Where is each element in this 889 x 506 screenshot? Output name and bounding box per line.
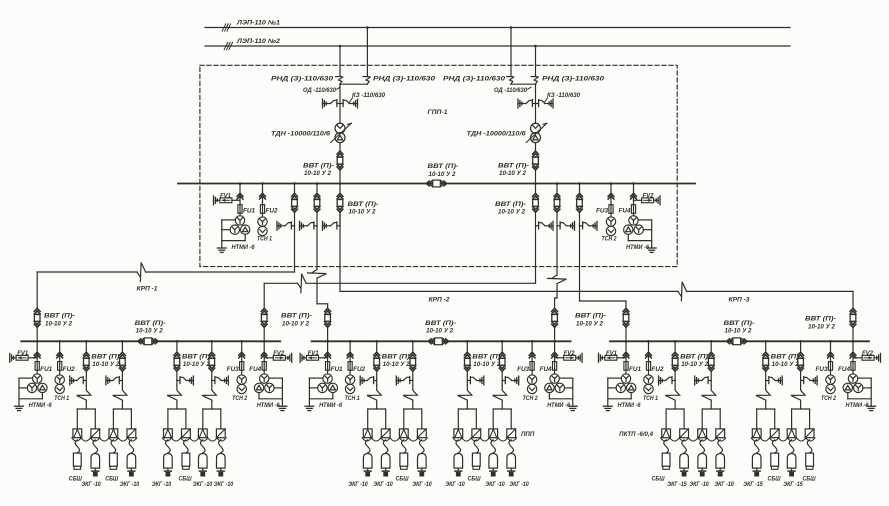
KRP@37 switchbox feeder 3 left — [164, 429, 173, 438]
svg-text:ВВТ (П)-: ВВТ (П)- — [805, 316, 836, 323]
breaker GPP feeder 6 — [577, 193, 583, 196]
KRP@626 node feeder 3 — [764, 340, 767, 343]
KRP@626 bus-tie breaker — [727, 339, 730, 344]
wire R2 jog — [555, 297, 557, 299]
KRP@328 wire feeder 4 d — [501, 400, 503, 409]
breaker GPP feeder 3 — [337, 193, 343, 196]
svg-text:ВВТ (П)-: ВВТ (П)- — [498, 162, 529, 169]
KRP@328 trailing cable f4l — [491, 440, 496, 453]
wire GPP feeder 1 lower — [294, 212, 296, 226]
KRP@626 wire FU2-TCN — [648, 370, 650, 374]
KRP@626 trailing cable f1l — [664, 440, 669, 453]
KRP@328 earthing knife feeder 2 — [395, 376, 397, 385]
KRP@626 wire FU1-VT — [625, 370, 627, 374]
KRP@37 earthing knife feeder 3 — [192, 376, 194, 385]
svg-text:КРП -1: КРП -1 — [137, 286, 158, 293]
KRP@626 load EKG f2l — [698, 454, 707, 469]
earthing knife GPP feeder 5 — [574, 221, 576, 230]
disconnector RND1 bay1 — [336, 76, 342, 78]
KRP@626 wire FU4-VT — [852, 370, 854, 374]
KRP@328 VT NTMI-6 left — [323, 374, 332, 383]
KRP@328 switchbox feeder 4 left — [489, 429, 498, 438]
disconnector RND2 bay1 — [363, 76, 369, 78]
wire KRP-3 left input drop — [625, 301, 627, 308]
svg-text:ВВТ (П): ВВТ (П) — [182, 354, 210, 361]
KRP@626 trailing cable f4l — [789, 440, 794, 453]
KRP@37 earthing knife feeder 1 — [69, 376, 71, 385]
wire feeder L3 drop — [339, 212, 341, 291]
KRP@626 wire feeder 4 b — [800, 371, 802, 380]
svg-text:ЭКГ -15: ЭКГ -15 — [667, 481, 687, 488]
KRP@37 node feeder 4 — [211, 340, 214, 343]
svg-text:ВВТ (П)-: ВВТ (П)- — [281, 313, 312, 320]
KRP@626 load SBSh f1l — [662, 453, 670, 466]
KRP@626 tap arrow FU3 — [828, 352, 834, 355]
wire feeder R1 to KRP-1 — [306, 282, 535, 284]
KRP@626 switchbox feeder 4 left — [787, 429, 796, 438]
KRP@328 wire feeder 1 d — [376, 400, 378, 409]
KRP@328 switchbox feeder 1 left — [363, 429, 372, 438]
svg-text:РНД (З)-110/630: РНД (З)-110/630 — [373, 76, 436, 83]
KRP@37 fuse FU2 — [58, 362, 62, 371]
svg-text:10-10 У 2: 10-10 У 2 — [576, 320, 604, 327]
KRP@328 load SBSh f2l — [400, 453, 408, 466]
KRP@37 fuse FU1 — [35, 362, 39, 371]
node GPP feeder 4 — [534, 182, 537, 185]
wire feeder L1 drop — [294, 226, 296, 272]
KRP@626 breaker feeder 2 — [708, 352, 714, 355]
KRP@37 breaker feeder 2 — [120, 352, 126, 355]
KRP@626 wire feeder 3 a — [765, 341, 767, 352]
KRP@626 input breaker right — [850, 308, 856, 311]
KRP@626 arrester FV1 — [598, 353, 600, 362]
wire joint bay1 — [340, 83, 368, 85]
KRP@626 trailing cable f3r — [772, 440, 777, 453]
wire GPP feeder 1 upper — [294, 184, 296, 194]
svg-text:ЭКГ -10: ЭКГ -10 — [485, 481, 505, 488]
busbar GPP 6-10kV — [178, 183, 695, 185]
svg-text:НТМИ -6: НТМИ -6 — [547, 403, 571, 409]
svg-text:СБШ: СБШ — [803, 476, 817, 483]
KRP@626 earthing knife feeder 2 — [694, 376, 696, 385]
GPP right tap arrow VT — [631, 193, 637, 196]
GPP right tap arrow TCN — [608, 193, 614, 196]
wire drop bay1 left — [339, 46, 341, 76]
KRP@626 load EKG f1r — [680, 454, 689, 469]
wire GPP feeder 4 upper — [535, 184, 537, 194]
KRP@626 overhead-line break feeder 1 — [665, 385, 679, 400]
KRP@37 earthing knife feeder 2 — [105, 376, 107, 385]
KRP@626 load SBSh f4r — [806, 453, 814, 466]
KRP@37 trailing cable f1r — [93, 440, 98, 453]
KRP@37 switchbox feeder 4 right — [216, 429, 225, 438]
KRP@328 breaker feeder 2 — [410, 352, 416, 355]
KRP@626 node TCN tap FU2 — [647, 340, 650, 343]
KRP@37 trailing cable f1l — [75, 440, 80, 453]
KRP@37 switchbox feeder 1 left — [73, 429, 82, 438]
wire bay2 down to OD/KZ — [535, 84, 537, 103]
KRP@626 wire feeder 4 c — [800, 381, 802, 386]
svg-text:ЭКГ -10: ЭКГ -10 — [348, 481, 368, 488]
KRP@37 wire feeder 4 b — [211, 371, 213, 380]
svg-text:10-10 У 2: 10-10 У 2 — [136, 328, 164, 335]
KRP@37 load EKG f4l — [199, 454, 208, 469]
KRP@37 trailing cable f4r — [218, 440, 223, 453]
svg-text:10-10 У 2: 10-10 У 2 — [45, 320, 73, 327]
disconnector OD bay1 — [322, 99, 324, 108]
KRP@626 fuse FU3 — [828, 362, 832, 371]
KRP@626 earthing knife feeder 4 — [816, 376, 818, 385]
svg-text:РНД (З)-110/630: РНД (З)-110/630 — [271, 76, 334, 83]
svg-text:FV1: FV1 — [308, 351, 320, 357]
KRP@626 load EKG f4l — [787, 454, 796, 469]
KRP@37 arrester FV2 — [291, 353, 293, 362]
wire L2 jog — [317, 303, 328, 305]
KRP@328 flex boundary left pair — [362, 438, 427, 441]
KRP@37 wire feeder 1 c — [85, 381, 87, 386]
KRP@626 trailing cable f4r — [807, 440, 812, 453]
svg-text:FU2: FU2 — [652, 367, 665, 373]
svg-text:10-10 У 2: 10-10 У 2 — [499, 170, 527, 177]
hatch marks line 1 — [222, 24, 226, 31]
KRP@37 busbar — [21, 340, 280, 342]
KRP@328 node feeder 3 — [466, 340, 469, 343]
svg-text:РНД (З)-110/630: РНД (З)-110/630 — [443, 76, 506, 83]
svg-text:СБШ: СБШ — [396, 476, 410, 483]
wire drop bay1 right — [366, 28, 368, 76]
node line2 tap bay2 — [534, 45, 537, 48]
KRP@37 load EKG f1r — [91, 454, 100, 469]
node GPP feeder 2 — [316, 182, 319, 185]
svg-text:10-10 У 2: 10-10 У 2 — [429, 171, 457, 178]
KRP@37 node feeder 1 — [85, 340, 88, 343]
wire GPP feeder 2 lower — [316, 212, 318, 226]
earthing knife GPP feeder 2 — [299, 221, 301, 230]
wire GPP feeder 6 lower — [579, 212, 581, 226]
svg-text:НТМИ -6: НТМИ -6 — [846, 403, 870, 409]
KRP@328 node input right — [553, 340, 556, 343]
earthing knife GPP feeder 4 — [552, 221, 554, 230]
svg-text:ТДН -10000/110/6: ТДН -10000/110/6 — [467, 131, 527, 137]
KRP@37 wire FU2-TCN — [59, 370, 61, 374]
KRP@626 load SBSh f3r — [771, 453, 779, 466]
svg-text:FU2: FU2 — [266, 208, 279, 214]
svg-text:ВВТ (П)-: ВВТ (П)- — [575, 313, 606, 320]
svg-text:FU4: FU4 — [838, 367, 851, 373]
KRP@626 splitter feeder 1 — [666, 408, 684, 410]
KRP@328 tap arrow VT FU1 — [325, 352, 331, 355]
KRP@328 load EKG f4l — [489, 454, 498, 469]
KRP@328 wire FU3-TCN — [531, 370, 533, 374]
svg-text:РНД (З)-110/630: РНД (З)-110/630 — [542, 76, 605, 83]
KRP@328 busbar — [312, 340, 571, 342]
svg-text:FV2: FV2 — [273, 351, 285, 357]
svg-text:ВВТ (П)-: ВВТ (П)- — [135, 320, 166, 327]
KRP@328 wire FU4-VT — [554, 370, 556, 374]
KRP@328 trailing cable f2l — [401, 440, 406, 453]
line break on L3 — [678, 291, 681, 296]
wire GPP feeder 3 lower — [339, 212, 341, 226]
KRP@37 node TCN tap FU2 — [58, 340, 61, 343]
KRP@37 switchbox feeder 1 right — [91, 429, 100, 438]
svg-text:ЭКГ -10: ЭКГ -10 — [445, 481, 465, 488]
svg-text:ВВТ (П): ВВТ (П) — [771, 354, 799, 361]
svg-text:ВВТ (П)-: ВВТ (П)- — [44, 313, 75, 320]
KRP@37 trailing cable f3r — [184, 440, 189, 453]
KRP@328 transformer ТСН 2 — [527, 375, 536, 384]
svg-text:КРП -3: КРП -3 — [729, 297, 750, 304]
svg-text:ЛЭП-110 №1: ЛЭП-110 №1 — [236, 20, 281, 27]
breaker GPP feeder 2 — [314, 193, 320, 196]
short-circuiter KZ bay2 — [552, 99, 554, 108]
svg-text:FV2: FV2 — [862, 351, 874, 357]
earthing knife GPP feeder 3 — [322, 221, 324, 230]
wire drop bay2 left — [510, 28, 512, 76]
KRP@328 trailing cable f1l — [365, 440, 370, 453]
KRP@328 wire feeder 2 b — [412, 371, 414, 380]
KRP@37 splitter feeder 1 — [77, 408, 95, 410]
node GPP feeder 5 — [556, 182, 559, 185]
wire T1 to breaker — [339, 143, 341, 151]
KRP@37 switchbox feeder 2 right — [127, 429, 136, 438]
KRP@37 wire feeder 2 d — [121, 400, 123, 409]
KRP@37 wire FU4-VT — [263, 370, 265, 374]
KRP@626 wire feeder 2 a — [710, 341, 712, 352]
KRP@626 overhead-line break feeder 3 — [756, 385, 770, 400]
svg-text:FU3: FU3 — [227, 367, 240, 373]
KRP@37 VT NTMI-6 left — [33, 374, 42, 383]
KRP@626 wire feeder 4 a — [800, 341, 802, 352]
KRP@328 breaker feeder 3 — [464, 352, 470, 355]
svg-text:ЭКГ -10: ЭКГ -10 — [120, 481, 140, 488]
KRP@626 transformer ТСН 2 — [826, 375, 835, 384]
svg-text:10-10 У 2: 10-10 У 2 — [383, 361, 411, 368]
KRP@328 wire FU2-TCN — [349, 370, 351, 374]
KRP@626 wire feeder 4 d — [800, 400, 802, 409]
svg-text:НТМИ -6: НТМИ -6 — [618, 403, 642, 409]
KRP@626 node input left — [625, 340, 628, 343]
KRP@37 tap arrow VT FU4 — [261, 352, 267, 355]
KRP@626 fuse FU1 — [624, 362, 628, 371]
KRP@328 wire VT tap FU1 — [327, 341, 329, 361]
KRP@328 wire feeder 3 d — [466, 400, 468, 409]
KRP@37 breaker feeder 3 — [174, 352, 180, 355]
svg-text:ПКТП -6/0,4: ПКТП -6/0,4 — [619, 431, 653, 438]
KRP@328 overhead-line break feeder 3 — [458, 385, 472, 400]
KRP@328 load EKG f1r — [381, 454, 390, 469]
KRP@37 transformer ТСН 1 — [55, 375, 64, 384]
KRP@626 splitter feeder 2 — [702, 408, 720, 410]
KRP@37 node input right — [263, 340, 266, 343]
svg-text:ВВТ (П)-: ВВТ (П)- — [495, 201, 526, 208]
KRP@328 switchbox feeder 1 right — [381, 429, 390, 438]
bus-tie breaker GPP — [426, 181, 429, 186]
GPP right arrester FV — [659, 196, 661, 205]
GPP right node VT tap — [632, 182, 635, 185]
KRP@328 earthing knife feeder 4 — [518, 376, 520, 385]
KRP@328 trailing cable f2r — [419, 440, 424, 453]
breaker GPP feeder 4 — [533, 193, 539, 196]
earthing knife GPP feeder 6 — [596, 221, 598, 230]
KRP@328 wire feeder 4 a — [501, 341, 503, 352]
wire bay1 down to OD/KZ — [339, 84, 341, 103]
KRP@37 wire VT tap FU1 — [36, 341, 38, 361]
GPP right fuse FU-tcn — [609, 205, 613, 214]
svg-text:ТСН 2: ТСН 2 — [232, 396, 248, 402]
KRP@626 tap arrow FU2 — [646, 352, 652, 355]
wire GPP feeder 6 upper — [579, 184, 581, 194]
KRP@37 overhead-line break feeder 1 — [77, 385, 91, 400]
svg-text:ТСН 1: ТСН 1 — [257, 236, 273, 242]
KRP@328 wire FU1-VT — [327, 370, 329, 374]
KRP@37 wire feeder 1 b — [85, 371, 87, 380]
svg-text:НТМИ -6: НТМИ -6 — [626, 245, 650, 251]
KRP@626 load EKG f3l — [752, 454, 761, 469]
KRP@626 input breaker left — [623, 308, 629, 311]
svg-text:ТСН 2: ТСН 2 — [602, 236, 618, 242]
KRP@328 fuse FU3 — [530, 362, 534, 371]
KRP@626 breaker feeder 3 — [763, 352, 769, 355]
GPP right VT NTMI-6 — [629, 216, 638, 225]
KRP@626 earthing knife feeder 3 — [781, 376, 783, 385]
GPP right wire fuse-VT — [633, 213, 635, 215]
KRP@37 wire feeder 4 d — [211, 400, 213, 409]
KRP@37 wire feeder 4 c — [211, 381, 213, 386]
KRP@328 breaker feeder 1 — [374, 352, 380, 355]
svg-text:СБШ: СБШ — [652, 476, 666, 483]
KRP@626 tap arrow VT FU4 — [850, 352, 856, 355]
KRP@37 bus-tie breaker — [138, 339, 141, 344]
svg-text:FV1: FV1 — [606, 351, 618, 357]
svg-text:10-10 У 2: 10-10 У 2 — [772, 361, 800, 368]
wire feeder L3 to KRP-3 — [340, 290, 678, 292]
svg-text:НТМИ -6: НТМИ -6 — [29, 403, 53, 409]
KRP@37 trailing cable f4l — [200, 440, 205, 453]
svg-text:10-10 У 2: 10-10 У 2 — [725, 328, 753, 335]
svg-text:10-10 У 2: 10-10 У 2 — [426, 328, 454, 335]
GPP left tap arrow VT — [237, 193, 243, 196]
KRP@37 splitter feeder 3 — [168, 408, 186, 410]
line break on L2 — [312, 270, 317, 273]
KRP@328 wire feeder 3 a — [466, 341, 468, 352]
KRP@37 switchbox feeder 4 left — [198, 429, 207, 438]
KRP@626 flex boundary right pair — [751, 438, 815, 441]
KRP@37 load EKG f4r — [217, 454, 226, 469]
svg-text:10-10 У 2: 10-10 У 2 — [282, 320, 310, 327]
KRP@37 wire feeder 4 a — [211, 341, 213, 352]
wire feeder R1 drop — [535, 226, 537, 283]
svg-text:10-10 У 2: 10-10 У 2 — [349, 209, 377, 216]
KRP@626 trailing cable f1r — [682, 440, 687, 453]
GPP left tap arrow TCN — [260, 193, 266, 196]
KRP@328 tap arrow VT FU4 — [552, 352, 558, 355]
KRP@37 fuse FU4 — [262, 362, 266, 371]
KRP@626 node feeder 1 — [674, 340, 677, 343]
KRP@626 switchbox feeder 2 right — [716, 429, 725, 438]
GPP right node TCN tap — [610, 182, 613, 185]
KRP@328 earthing knife feeder 1 — [359, 376, 361, 385]
KRP@328 node input left — [326, 340, 329, 343]
KRP@328 load SBSh f3r — [472, 453, 480, 466]
wire feeder L1 to KRP-1 — [146, 271, 295, 273]
svg-text:НТМИ -6: НТМИ -6 — [257, 403, 281, 409]
KRP@328 arrester FV1 — [299, 353, 301, 362]
KRP@37 tap arrow VT FU1 — [34, 352, 40, 355]
dashed enclosure GPP-1 — [200, 65, 677, 266]
wire KRP-2 right input drop — [554, 298, 556, 308]
KRP@626 breaker feeder 1 — [672, 352, 678, 355]
KRP@328 wire feeder 1 a — [376, 341, 378, 352]
GPP right wire VT tap — [633, 184, 635, 205]
svg-text:FV2: FV2 — [643, 193, 655, 199]
svg-text:ВВТ (П): ВВТ (П) — [472, 354, 500, 361]
KRP@37 wire feeder 2 c — [121, 381, 123, 386]
KRP@37 load EKG f3l — [164, 454, 173, 469]
svg-text:КЗ -110/630: КЗ -110/630 — [352, 93, 386, 99]
KRP@37 arrester FV1 — [9, 353, 11, 362]
svg-text:ВВТ (П): ВВТ (П) — [91, 354, 119, 361]
svg-text:СБШ: СБШ — [179, 476, 193, 483]
KRP@626 trailing cable f3l — [754, 440, 759, 453]
KRP@626 switchbox feeder 1 left — [662, 429, 671, 438]
GPP left fuse FU-tcn — [260, 205, 264, 214]
breaker T1 incomer — [337, 151, 343, 154]
KRP@37 wire feeder 1 d — [85, 400, 87, 409]
KRP@37 splitter feeder 2 — [113, 408, 131, 410]
disconnector OD bay2 — [517, 99, 519, 108]
GPP right transformer TCN — [606, 217, 615, 226]
node line1 tap bay2 — [510, 26, 513, 29]
svg-text:КЗ -110/630: КЗ -110/630 — [547, 93, 581, 99]
svg-text:10-10 У 2: 10-10 У 2 — [808, 323, 836, 330]
KRP@626 wire feeder 3 d — [765, 400, 767, 409]
KRP@626 wire feeder 1 d — [674, 400, 676, 409]
KRP@37 wire TCN tap FU2 — [59, 341, 61, 361]
KRP@328 trailing cable f1r — [383, 440, 388, 453]
KRP@626 tap arrow VT FU1 — [623, 352, 629, 355]
node GPP feeder 3 — [339, 182, 342, 185]
KRP@37 overhead-line break feeder 4 — [202, 385, 216, 400]
KRP@626 node feeder 4 — [799, 340, 802, 343]
KRP@626 overhead-line break feeder 4 — [791, 385, 805, 400]
KRP@328 splitter feeder 4 — [493, 408, 511, 410]
GPP left node TCN tap — [261, 182, 264, 185]
wire feeder R3 drop — [579, 226, 581, 301]
KRP@328 switchbox feeder 2 left — [399, 429, 408, 438]
GPP left arrester FV — [213, 196, 215, 205]
wire GPP feeder 4 lower — [535, 212, 537, 226]
svg-text:ВВТ (П)-: ВВТ (П)- — [348, 201, 379, 208]
KRP@328 fuse FU4 — [553, 362, 557, 371]
KRP@37 switchbox feeder 3 right — [182, 429, 191, 438]
KRP@328 switchbox feeder 4 right — [507, 429, 516, 438]
KRP@626 wire feeder 2 b — [710, 371, 712, 380]
KRP@328 splitter feeder 2 — [404, 408, 422, 410]
KRP@626 splitter feeder 4 — [792, 408, 810, 410]
GPP left transformer TCN — [258, 217, 267, 226]
KRP@328 node TCN tap FU3 — [531, 340, 534, 343]
KRP@626 wire feeder 3 c — [765, 381, 767, 386]
KRP@328 node TCN tap FU2 — [349, 340, 352, 343]
GPP left node VT tap — [239, 182, 242, 185]
svg-text:ТСН 1: ТСН 1 — [643, 396, 659, 402]
GPP left wire fuse-TCN — [262, 213, 264, 217]
KRP@37 earthing knife feeder 4 — [227, 376, 229, 385]
KRP@626 node feeder 2 — [710, 340, 713, 343]
svg-text:10-10 У 2: 10-10 У 2 — [92, 361, 120, 368]
KRP@328 overhead-line break feeder 1 — [367, 385, 381, 400]
KRP@37 wire VT tap FU4 — [263, 341, 265, 361]
